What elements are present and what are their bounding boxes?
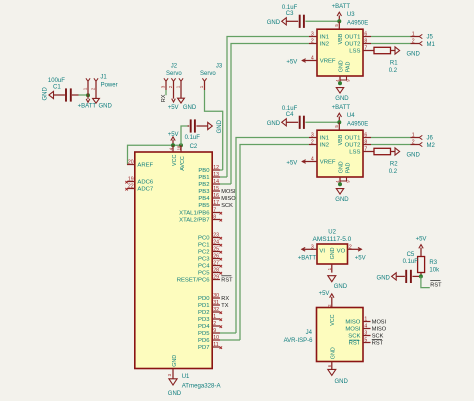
svg-text:7: 7 [364,46,367,52]
svg-text:+5V: +5V [319,291,330,297]
power symbol GND (below U4) [335,189,349,203]
svg-text:Servo: Servo [200,71,216,77]
svg-text:16: 16 [213,193,219,199]
label U1 / ATmega328-A [182,374,222,390]
pin VREF (4) left of U3 [309,56,336,65]
svg-text:2: 2 [311,140,314,146]
svg-text:9: 9 [213,328,216,334]
svg-text:AREF: AREF [137,163,153,169]
svg-text:10: 10 [213,335,219,341]
svg-text:M1: M1 [427,42,436,48]
svg-text:5: 5 [364,338,367,344]
pin PC3 (26) right of U1 [198,254,222,263]
svg-text:GND: GND [267,121,281,127]
pin LSS (7) right of U4 [349,147,371,156]
svg-text:GND: GND [335,379,349,385]
pin OUT1 (6) right of U4 [345,133,371,142]
svg-text:GND: GND [168,391,182,397]
pin IN1 (3) left of U3 [309,32,329,41]
wire AVCC to C2 [181,126,188,145]
svg-text:PAD: PAD [345,62,351,73]
svg-text:1: 1 [83,87,88,90]
svg-text:U1: U1 [182,374,190,380]
pin OUT2 (8) right of U4 [345,140,371,149]
svg-text:RX: RX [221,296,229,302]
svg-text:GND: GND [330,347,336,359]
svg-text:PD1: PD1 [198,303,209,309]
svg-text:Servo: Servo [166,71,182,77]
svg-text:2: 2 [168,85,173,88]
svg-text:RST: RST [430,282,442,288]
pin GND (6) bottom of J4 [327,347,337,369]
svg-text:4: 4 [364,324,367,330]
pin VI (3) left of U2 [310,244,326,254]
wire OUT1 to J6 [371,137,411,139]
junction dot RST node [419,274,423,278]
svg-text:MISO: MISO [372,327,387,333]
svg-text:1: 1 [412,133,415,139]
svg-text:11: 11 [213,342,218,348]
svg-text:C4: C4 [286,112,294,118]
svg-text:OUT2: OUT2 [345,42,361,48]
pin PC2 (25) right of U1 [198,247,222,256]
pin PC1 (24) right of U1 [198,240,222,249]
svg-text:PD0: PD0 [198,296,210,302]
connector J3 Servo [199,64,223,91]
svg-text:25: 25 [213,247,219,253]
power symbol +5V (J2 pin 2) [168,90,179,111]
capacitor C1 100uF [48,78,72,102]
pin PD5 (9) right of U1 [198,328,236,337]
svg-text:8: 8 [364,140,367,146]
svg-text:+5V: +5V [416,237,427,243]
svg-text:GND: GND [330,247,336,259]
svg-text:OUT1: OUT1 [345,136,361,142]
svg-text:8: 8 [213,215,216,221]
svg-text:GND: GND [335,197,349,203]
svg-text:3: 3 [311,133,314,139]
svg-text:A4950E: A4950E [347,122,368,128]
pin SCK (3) right of J4 [348,331,383,340]
svg-text:+5V: +5V [355,255,366,261]
power symbol +5V (above R3) [416,237,427,257]
svg-text:7: 7 [213,208,216,214]
svg-text:24: 24 [213,240,219,246]
svg-text:28: 28 [213,268,219,274]
IC U2 AMS1117-5.0 body [313,229,352,264]
pin VCC (4) top of U1 [168,145,177,166]
pin PC0 (23) right of U1 [198,233,222,242]
svg-text:GND: GND [407,52,421,58]
wire J3 to PB0 [205,90,223,170]
pin ADC7 (22) left of U1 [125,184,153,193]
svg-text:ADC6: ADC6 [137,180,153,186]
pin GND (3) bottom of U1 [167,355,178,379]
svg-text:XTAL2/PB7: XTAL2/PB7 [179,218,209,224]
svg-text:AVR-ISP-6: AVR-ISP-6 [284,338,314,344]
net label RX (J2 pin 3) [161,94,167,102]
svg-text:VREF: VREF [320,59,336,65]
pin PD1 (31) right of U1 [198,300,229,309]
svg-text:GND: GND [217,119,223,133]
pin RST (5) right of J4 [349,338,384,347]
svg-text:0.2: 0.2 [389,68,398,74]
svg-text:LSS: LSS [349,150,360,156]
svg-text:13: 13 [213,172,219,178]
svg-text:6: 6 [364,133,367,139]
svg-text:IN1: IN1 [320,136,329,142]
svg-text:3: 3 [161,85,166,88]
svg-text:PC4: PC4 [198,264,210,270]
svg-text:+5V: +5V [286,160,297,166]
svg-text:RST: RST [221,278,233,284]
svg-text:3: 3 [311,32,314,38]
pin AREF (20) left of U1 [127,160,154,169]
power symbol GND (right of R1) [395,47,421,58]
capacitor C2 0.1uF [185,119,208,149]
pin PB2 (14) right of U1 [198,179,231,188]
svg-text:3: 3 [364,331,367,337]
pin XTAL2/PB7 (8) right of U1 [179,215,222,224]
power symbol +5V (above U1) [168,132,179,145]
pin PB4 (16) right of U1 [198,193,236,202]
pin XTAL1/PB6 (7) right of U1 [179,208,222,217]
svg-text:29: 29 [213,275,219,281]
svg-text:10k: 10k [429,267,440,273]
svg-text:6: 6 [364,32,367,38]
svg-text:J3: J3 [216,64,223,70]
pin PD0 (30) right of U1 [198,293,229,302]
wire [305,20,339,22]
svg-text:18: 18 [176,145,181,150]
junction dot [338,81,342,85]
svg-text:1: 1 [176,85,181,88]
svg-text:+BATT: +BATT [332,105,351,111]
svg-text:PB4: PB4 [198,196,210,202]
svg-text:100uF: 100uF [48,78,65,84]
svg-text:+5V: +5V [286,59,297,65]
svg-text:2: 2 [349,244,352,250]
svg-text:2: 2 [412,140,415,146]
svg-text:PD2: PD2 [198,310,209,316]
svg-text:PB0: PB0 [198,168,210,174]
svg-text:U3: U3 [347,12,355,18]
svg-text:PC2: PC2 [198,250,209,256]
svg-text:MOSI: MOSI [372,320,387,326]
wire [305,121,339,123]
svg-text:GND: GND [377,275,391,281]
svg-text:VCC: VCC [330,314,336,325]
svg-text:VBB: VBB [338,134,344,145]
svg-text:1: 1 [199,85,204,88]
svg-text:+5V: +5V [168,132,179,138]
svg-text:AVCC: AVCC [180,156,186,171]
svg-text:0.2: 0.2 [389,169,398,175]
svg-text:C5: C5 [407,252,415,258]
svg-text:2: 2 [311,39,314,45]
svg-text:GND: GND [339,161,345,173]
svg-text:IN1: IN1 [320,35,329,41]
svg-text:ADC7: ADC7 [137,187,153,193]
svg-text:0.1uF: 0.1uF [282,5,298,11]
wire bus PD6 to U4 IN2 [240,145,309,341]
svg-text:ATmega328-A: ATmega328-A [182,383,222,390]
svg-text:RESET/PC6: RESET/PC6 [177,278,210,284]
svg-text:7: 7 [364,147,367,153]
power symbol +5V (VREF of U4) [286,160,309,167]
connector J4 AVR-ISP-6 body [284,308,363,362]
wire OUT2 to J5 [371,43,411,45]
svg-text:17: 17 [213,200,219,206]
svg-text:PC0: PC0 [198,236,210,242]
svg-text:4: 4 [311,157,314,163]
pin PB0 (12) right of U1 [198,165,222,174]
svg-text:OUT2: OUT2 [345,143,361,149]
svg-text:U4: U4 [347,113,355,119]
wire bus PB1 to U3 IN1 [227,37,309,178]
connector J5 M1 [411,32,436,49]
svg-text:26: 26 [213,254,219,260]
power symbol GND (left of C4) [267,119,287,127]
svg-text:12: 12 [213,165,219,171]
svg-text:GND: GND [334,284,348,290]
power symbol GND (below J4) [328,369,349,385]
power symbol +BATT (below J1 pin 1) [78,95,97,109]
power symbol +BATT (U2 input) [298,248,317,262]
svg-text:A4950E: A4950E [347,21,368,27]
svg-text:PB3: PB3 [198,189,210,195]
svg-text:PB2: PB2 [198,182,209,188]
svg-text:XTAL1/PB6: XTAL1/PB6 [179,211,210,217]
IC U3 A4950E body [317,12,368,76]
svg-text:GND: GND [335,96,349,102]
svg-text:PD4: PD4 [198,324,210,330]
svg-text:SCK: SCK [372,334,384,340]
svg-text:AMS1117-5.0: AMS1117-5.0 [313,236,352,243]
svg-text:PB1: PB1 [198,175,209,181]
svg-text:GND: GND [99,104,113,110]
svg-text:C2: C2 [190,144,198,150]
svg-text:R3: R3 [429,260,437,266]
svg-text:+BATT: +BATT [332,4,351,10]
pin PD3 (1) right of U1 [198,314,222,323]
junction dot [338,182,342,186]
wire bus PB2 to U3 IN2 [231,44,309,185]
svg-text:PC3: PC3 [198,257,210,263]
wire [54,94,65,96]
pin RESET/PC6 (29) right of U1 [177,275,233,284]
power symbol GND (below U3) [335,88,349,102]
power symbol GND (right of R2) [395,148,421,159]
connector J2 Servo [161,64,184,91]
power symbol GND (below U2) [328,276,348,291]
svg-text:4: 4 [311,56,314,62]
resistor R1 0.2 [371,47,398,74]
svg-text:3: 3 [311,244,314,250]
junction dot VCC [171,143,175,147]
svg-text:2: 2 [412,39,415,45]
power symbol GND (J1 pin 2) [93,98,113,109]
pin PC4 (27) right of U1 [198,261,222,270]
svg-text:SCK: SCK [221,203,233,209]
pin GND bottom of U3 [335,60,345,83]
svg-text:VCC: VCC [172,155,178,166]
svg-text:J4: J4 [306,330,313,336]
junction dot VBB node U4 [337,120,341,124]
pin MOSI (4) right of J4 [345,324,386,333]
svg-text:15: 15 [213,186,219,192]
svg-text:TX: TX [221,303,228,309]
resistor R3 10k [418,257,440,277]
svg-text:RX: RX [161,94,167,102]
svg-text:+BATT: +BATT [298,255,317,261]
connector J6 M2 [411,133,436,150]
svg-text:1: 1 [412,32,415,38]
pin PAD bottom of U4 [340,163,351,183]
wire OUT1 to J5 [371,36,411,38]
pin PD4 (2) right of U1 [198,321,222,330]
pin VBB (5) top of U3 [334,21,344,44]
pin GND bottom of U4 [335,161,345,184]
svg-text:2: 2 [91,87,96,90]
svg-text:PB5: PB5 [198,203,210,209]
svg-text:14: 14 [213,179,219,185]
pin VBB (5) top of U4 [334,122,344,145]
svg-text:VREF: VREF [320,160,336,166]
svg-text:GND: GND [267,20,281,26]
svg-text:30: 30 [213,293,219,299]
power symbol +BATT (above U4) [332,105,351,123]
svg-text:0.1uF: 0.1uF [403,259,419,265]
wire [72,94,88,96]
svg-text:VI: VI [319,248,325,254]
pin PD6 (10) right of U1 [198,335,240,344]
svg-text:1: 1 [213,314,216,320]
svg-text:32: 32 [213,307,219,313]
power symbol GND (left of C3) [267,18,287,26]
svg-text:M2: M2 [427,143,436,149]
junction dot AVCC [179,143,183,147]
power symbol GND (below U1) [168,379,182,397]
svg-text:22: 22 [128,184,134,190]
svg-text:MOSI: MOSI [221,189,236,195]
svg-text:PD7: PD7 [198,345,209,351]
svg-text:PC5: PC5 [198,271,210,277]
svg-text:C3: C3 [286,11,294,17]
pin PB1 (13) right of U1 [198,172,227,181]
connector J1 Power [83,75,118,99]
svg-text:GND: GND [172,355,178,367]
svg-text:23: 23 [213,233,219,239]
pin PD2 (32) right of U1 [198,307,222,316]
power symbol GND (J2 pin 1) [178,90,197,111]
power symbol GND (left of C1) [43,87,54,101]
pin PB5 (17) right of U1 [198,200,233,209]
svg-text:PAD: PAD [345,163,351,174]
capacitor C3 0.1uF [282,5,305,28]
resistor R2 0.2 [371,148,398,175]
pin VREF (4) left of U4 [309,157,336,166]
svg-text:0.1uF: 0.1uF [185,135,201,141]
IC U4 A4950E body [317,113,368,177]
power symbol GND (right of C2) [208,119,223,133]
pin MISO (1) right of J4 [345,317,386,326]
svg-text:GND: GND [43,87,49,101]
svg-text:RST: RST [372,341,384,347]
svg-text:PC1: PC1 [198,243,209,249]
svg-text:J2: J2 [171,64,178,70]
svg-text:J1: J1 [100,75,107,81]
pin PC5 (28) right of U1 [198,268,222,277]
svg-text:RST: RST [349,341,361,347]
pin IN2 (2) left of U4 [309,140,329,149]
pin OUT1 (6) right of U3 [345,32,371,41]
svg-text:PD6: PD6 [198,338,210,344]
pin VO (2) right of U2 [337,244,355,254]
svg-text:2: 2 [213,321,216,327]
wire +5V rail to VCC/AVCC [128,145,182,164]
pin IN2 (2) left of U3 [309,39,329,48]
svg-text:20: 20 [128,160,134,166]
wire OUT2 to J6 [371,144,411,146]
power symbol +5V (VREF of U3) [286,59,309,66]
svg-text:PD3: PD3 [198,317,210,323]
svg-text:R2: R2 [390,161,398,167]
power symbol +5V (above J4) [319,291,334,308]
pin PB3 (15) right of U1 [198,186,236,195]
svg-text:J6: J6 [427,136,434,142]
pin PD7 (11) right of U1 [198,342,222,351]
svg-text:GND: GND [339,60,345,72]
wire bus PD5 to U4 IN1 [236,138,309,334]
svg-text:+5V: +5V [168,105,179,111]
svg-text:VO: VO [337,248,346,254]
capacitor C4 0.1uF [282,106,305,129]
svg-text:27: 27 [213,261,219,267]
power symbol +5V (U2 output) [355,248,366,262]
svg-text:C1: C1 [53,84,61,90]
wire [165,90,167,95]
pin LSS (7) right of U3 [349,46,371,55]
IC U1 ATmega328-A body [135,152,212,369]
junction dot VBB node U3 [337,19,341,23]
svg-text:31: 31 [213,300,219,306]
svg-text:MOSI: MOSI [345,327,360,333]
svg-text:8: 8 [364,39,367,45]
svg-text:IN2: IN2 [320,42,329,48]
svg-text:VBB: VBB [338,33,344,44]
svg-text:19: 19 [128,177,134,183]
svg-text:IN2: IN2 [320,143,329,149]
pin ADC6 (19) left of U1 [125,177,153,186]
wire RST [421,276,430,287]
svg-text:MISO: MISO [345,320,360,326]
pin PAD bottom of U3 [340,62,351,82]
junction dot +BATT node [86,93,90,97]
svg-text:0.1uF: 0.1uF [282,106,298,112]
svg-text:+BATT: +BATT [78,104,97,110]
svg-text:MISO: MISO [221,196,236,202]
svg-text:J5: J5 [427,35,434,41]
net label RST [430,281,442,289]
svg-text:1: 1 [364,317,367,323]
pin GND (1) bottom of U2 [327,247,336,272]
svg-text:SCK: SCK [348,334,360,340]
svg-text:U2: U2 [328,229,336,235]
pin IN1 (3) left of U4 [309,133,329,142]
power symbol GND (left of C5) [377,273,397,282]
power symbol +BATT (above U3) [332,4,351,22]
